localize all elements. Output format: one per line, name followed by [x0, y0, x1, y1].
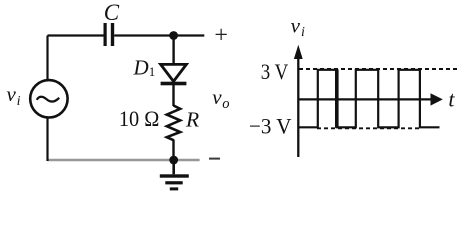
- dashed level line -3V: [317, 127, 421, 129]
- source AC vi circle: [30, 80, 67, 117]
- node bottom junction: [169, 156, 178, 165]
- svg-text:+: +: [214, 23, 228, 49]
- svg-text:R: R: [185, 107, 199, 131]
- svg-text:D: D: [133, 56, 149, 80]
- svg-text:C: C: [104, 0, 120, 25]
- wire resistor to bottom node: [172, 140, 174, 161]
- svg-text:i: i: [17, 94, 21, 109]
- wire bottom horizontal: [48, 159, 200, 162]
- wire source bottom vertical: [46, 117, 48, 161]
- wire wave thick edge: [335, 69, 339, 127]
- svg-text:3 V: 3 V: [261, 59, 289, 84]
- graph y-axis vi: [294, 45, 303, 157]
- svg-text:−3 V: −3 V: [249, 113, 292, 138]
- ground: [160, 160, 189, 190]
- svg-text:1: 1: [149, 64, 156, 79]
- svg-text:v: v: [212, 85, 222, 109]
- wire node to diode anode: [172, 36, 174, 65]
- svg-text:10 Ω: 10 Ω: [119, 106, 159, 131]
- svg-text:t: t: [448, 87, 455, 112]
- wire source top vertical: [46, 36, 48, 81]
- source sine symbol: [37, 97, 60, 102]
- svg-text:o: o: [222, 96, 229, 112]
- wire top-left horizontal: [48, 34, 104, 36]
- node top junction: [169, 31, 178, 40]
- wire top horizontal to output: [114, 34, 204, 36]
- label vo output voltage: [212, 85, 229, 112]
- label - output terminal: [209, 158, 220, 160]
- capacitor C plates: [105, 23, 112, 46]
- svg-text:v: v: [291, 13, 301, 37]
- label vi graph axis: [291, 13, 305, 40]
- wire diode cathode to resistor: [172, 85, 174, 106]
- diode D1: [161, 64, 187, 85]
- graph t-axis: [298, 93, 443, 105]
- label D1: [133, 56, 156, 80]
- dashed level line +3V: [299, 68, 459, 70]
- square wave vi: [299, 70, 440, 128]
- svg-text:v: v: [7, 82, 17, 106]
- svg-text:i: i: [301, 25, 305, 40]
- label vi source: [7, 82, 21, 109]
- resistor R zigzag: [167, 106, 180, 141]
